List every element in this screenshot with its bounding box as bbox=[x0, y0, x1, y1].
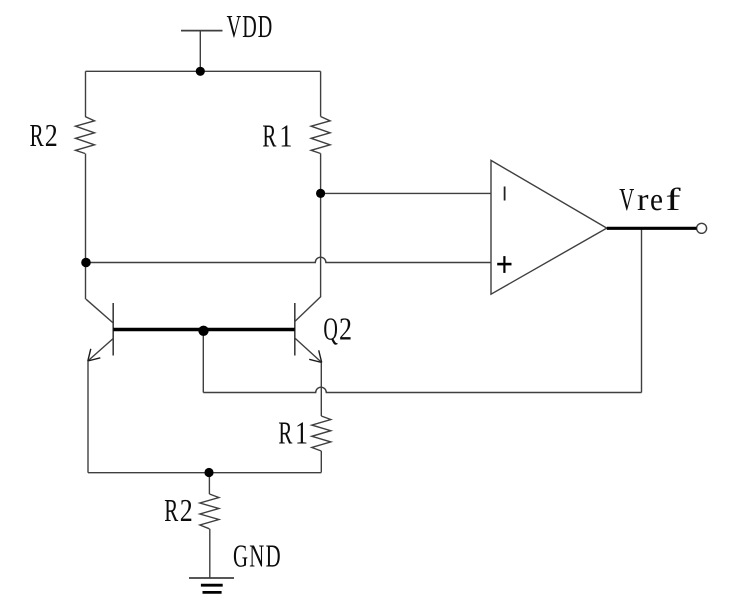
svg-text:2: 2 bbox=[180, 492, 193, 528]
svg-text:D: D bbox=[242, 8, 257, 44]
svg-text:V: V bbox=[227, 8, 242, 44]
svg-text:r: r bbox=[637, 181, 649, 217]
svg-text:1: 1 bbox=[279, 117, 292, 153]
svg-text:D: D bbox=[258, 8, 273, 44]
svg-text:D: D bbox=[266, 538, 281, 574]
svg-text:e: e bbox=[650, 181, 663, 217]
svg-text:N: N bbox=[249, 538, 264, 574]
svg-text:2: 2 bbox=[45, 117, 58, 153]
svg-text:Q: Q bbox=[323, 311, 338, 347]
svg-text:R: R bbox=[164, 492, 178, 528]
svg-text:G: G bbox=[233, 538, 248, 574]
svg-text:R: R bbox=[30, 117, 44, 153]
svg-text:R: R bbox=[278, 414, 292, 450]
svg-text:1: 1 bbox=[295, 414, 308, 450]
svg-text:V: V bbox=[619, 181, 634, 217]
svg-text:R: R bbox=[262, 117, 276, 153]
svg-text:2: 2 bbox=[339, 311, 352, 347]
svg-text:f: f bbox=[666, 181, 681, 217]
